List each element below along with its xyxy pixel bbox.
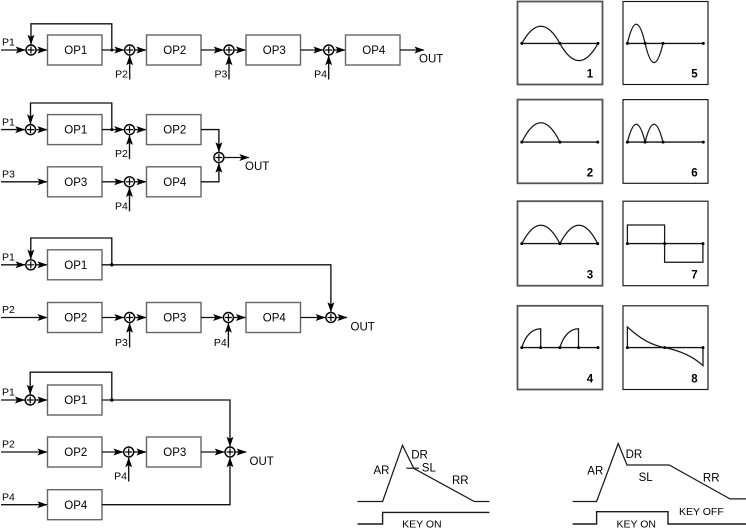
SL tick dash (left envelope) <box>406 467 419 469</box>
op block OP2 (alg2) <box>147 115 202 145</box>
waveform box 3 frame <box>518 201 603 286</box>
wire OP1 long output to final adder (alg3) <box>102 265 331 312</box>
wire OP3 output to adder A3 (alg2) <box>102 181 124 183</box>
op block OP4 (alg2) <box>147 167 202 197</box>
waveform box 5 frame <box>623 2 708 85</box>
svg-text:2: 2 <box>587 167 593 179</box>
svg-text:P2: P2 <box>115 69 128 81</box>
key gate line right <box>573 512 746 524</box>
wire P2 modulation input (alg1) <box>129 56 131 80</box>
wire OP3 output to final adder (alg4) <box>201 451 224 453</box>
op block OP1 (alg4) <box>48 385 103 415</box>
wire P3 input to OP3 (alg2) <box>1 181 47 183</box>
svg-text:KEY OFF: KEY OFF <box>679 506 724 518</box>
waveform 1 sine curve <box>522 26 598 60</box>
wire adder A2 to OP3 (alg4) <box>134 451 146 453</box>
svg-text:3: 3 <box>587 270 593 282</box>
waveform 8 axis dots <box>626 346 705 349</box>
svg-text:RR: RR <box>452 475 469 487</box>
adder A2 (alg3) <box>125 313 135 323</box>
op block OP2 (alg1) <box>147 35 202 65</box>
waveform 1 axis <box>522 42 598 44</box>
wire P2 input to OP2 (alg3) <box>1 317 47 319</box>
wire adder A2 to OP2 (alg1) <box>135 49 146 51</box>
op block OP4 (alg1) <box>346 35 401 65</box>
wire P2 modulation input (alg2) <box>129 135 131 159</box>
wire adder A3 to OP4 (alg3) <box>233 317 245 319</box>
op block OP4 (alg3) <box>246 303 301 333</box>
svg-text:OP3: OP3 <box>163 313 186 325</box>
svg-text:P1: P1 <box>2 116 15 128</box>
waveform 6 axis <box>627 141 703 143</box>
svg-text:RR: RR <box>703 473 720 485</box>
op block OP3 (alg1) <box>246 35 301 65</box>
wire OP2 output to adder A2 (alg4) <box>102 451 123 453</box>
op block OP3 (alg4) <box>147 437 202 467</box>
waveform 2 half-sine curve <box>522 123 560 142</box>
svg-text:P4: P4 <box>214 337 227 349</box>
waveform 2 axis <box>522 141 598 143</box>
svg-text:4: 4 <box>587 374 594 386</box>
svg-text:8: 8 <box>691 374 698 386</box>
svg-text:1: 1 <box>587 69 594 81</box>
svg-text:OP1: OP1 <box>64 260 87 272</box>
op block OP1 (alg1) <box>48 35 103 65</box>
svg-text:P1: P1 <box>2 387 15 399</box>
adder A2 (alg4) <box>124 447 134 457</box>
svg-text:OUT: OUT <box>250 456 274 468</box>
wire adder A2 to OP2 (alg2) <box>135 129 147 131</box>
svg-text:KEY ON: KEY ON <box>402 518 442 530</box>
svg-text:P4: P4 <box>314 69 327 81</box>
wire P2 input to OP2 (alg4) <box>1 451 47 453</box>
final sum adder (alg2) <box>214 153 224 163</box>
wire OP4 output to final adder (alg4) <box>102 458 230 505</box>
junction dot feedback tap (alg1) <box>110 49 113 52</box>
svg-text:6: 6 <box>691 167 697 179</box>
svg-text:DR: DR <box>411 449 428 461</box>
op block OP2 (alg3) <box>48 303 103 333</box>
svg-text:OUT: OUT <box>245 161 269 173</box>
waveform 3 axis dots <box>520 242 599 245</box>
wire adder A1 to OP1 (alg3) <box>36 264 47 266</box>
waveform 5 axis dots <box>626 42 705 45</box>
svg-text:7: 7 <box>691 270 697 282</box>
svg-text:P4: P4 <box>2 491 15 503</box>
wire adder A1 to OP1 (alg1) <box>36 49 47 51</box>
waveform 5 axis <box>627 42 703 44</box>
waveform 2 axis dots <box>520 141 599 144</box>
op block OP3 (alg2) <box>48 167 103 197</box>
waveform box 2 frame <box>518 100 603 184</box>
adder A1 (alg1) <box>26 45 36 55</box>
svg-text:AR: AR <box>587 466 603 478</box>
wire OUT (alg2) <box>224 157 249 159</box>
waveform 4 quarter-sine pulses <box>522 329 579 348</box>
wire P3 modulation input (alg3) <box>129 323 131 347</box>
feedback loop OP1 (alg3) <box>31 238 112 265</box>
waveform 4 axis dots <box>520 346 599 349</box>
svg-text:P1: P1 <box>2 37 15 49</box>
svg-text:SL: SL <box>639 472 654 484</box>
waveform box 1 frame <box>518 2 603 85</box>
envelope curve right (AR-DR-SL-RR) <box>573 444 746 502</box>
svg-text:KEY ON: KEY ON <box>617 518 657 530</box>
wire OP4 output (alg1) <box>400 49 424 51</box>
wire adder A3 to OP3 (alg1) <box>234 49 246 51</box>
wire OUT (alg3) <box>336 317 347 319</box>
svg-text:OP2: OP2 <box>163 45 186 57</box>
svg-text:P1: P1 <box>2 252 15 264</box>
svg-text:OP1: OP1 <box>64 395 87 407</box>
svg-text:5: 5 <box>691 69 698 81</box>
junction dot OP1 output (alg4) <box>110 398 113 401</box>
adder A1 (alg4) <box>25 395 35 405</box>
waveform 6 axis dots <box>626 141 705 144</box>
wire OP3 output to adder A4 (alg1) <box>301 49 323 51</box>
wire P4 input to OP4 (alg4) <box>1 504 47 506</box>
waveform box 6 frame <box>623 100 708 184</box>
svg-text:P4: P4 <box>115 200 128 212</box>
adder A3 (alg3) <box>223 313 233 323</box>
adder A2 (alg1) <box>125 45 135 55</box>
svg-text:P4: P4 <box>114 471 127 483</box>
svg-text:OP3: OP3 <box>64 177 87 189</box>
svg-text:OP3: OP3 <box>263 45 286 57</box>
feedback loop OP1 (alg1) <box>31 24 112 50</box>
wire OP1 output to adder A2 (alg1) <box>102 49 124 51</box>
wire P3 modulation input (alg1) <box>228 56 230 80</box>
svg-text:OP2: OP2 <box>64 447 87 459</box>
wire OP4 output to final adder (alg3) <box>301 317 326 319</box>
wire adder A3 to OP4 (alg2) <box>135 181 147 183</box>
svg-text:P2: P2 <box>2 304 15 316</box>
waveform 1 axis dots <box>520 42 599 45</box>
waveform 7 axis dots <box>626 242 705 245</box>
wire OP2 output to final adder (alg2) <box>201 130 219 152</box>
waveform 8 log-saw curve <box>627 327 703 366</box>
adder A2 (alg2) <box>125 125 135 135</box>
wire adder A1 to OP1 (alg2) <box>36 129 48 131</box>
envelope curve left (AR-DR-RR) <box>358 445 490 501</box>
waveform 8 axis <box>627 347 703 349</box>
svg-text:OP4: OP4 <box>263 313 287 325</box>
wire OP3 output to adder A3 (alg3) <box>201 317 223 319</box>
svg-text:DR: DR <box>626 449 643 461</box>
wire OP2 output to adder A2 (alg3) <box>102 317 124 319</box>
svg-text:P3: P3 <box>2 169 15 181</box>
waveform 3 axis <box>522 243 598 245</box>
waveform box 4 frame <box>518 306 603 390</box>
final sum adder (alg4) <box>225 447 235 457</box>
wire OUT (alg4) <box>235 451 246 453</box>
svg-text:OP4: OP4 <box>64 500 88 512</box>
junction dot feedback tap (alg2) <box>110 128 113 131</box>
waveform 6 double hump curve <box>627 124 663 142</box>
waveform box 8 frame <box>623 306 708 390</box>
adder A3 (alg2) <box>125 177 135 187</box>
op block OP2 (alg4) <box>48 437 103 467</box>
wire P4 modulation input (alg2) <box>129 188 131 212</box>
svg-text:OUT: OUT <box>351 322 375 334</box>
wire adder A2 to OP3 (alg3) <box>135 317 146 319</box>
wire OP2 output to adder A3 (alg1) <box>201 49 223 51</box>
op block OP1 (alg2) <box>48 115 103 145</box>
svg-text:AR: AR <box>374 465 390 477</box>
svg-text:SL: SL <box>422 462 437 474</box>
wire P1 input to adder (alg2) <box>1 129 25 131</box>
svg-text:P2: P2 <box>2 439 15 451</box>
wire adder A1 to OP1 (alg4) <box>35 399 47 401</box>
waveform box 7 frame <box>623 201 708 286</box>
svg-text:OUT: OUT <box>419 54 443 66</box>
wire adder A4 to OP4 (alg1) <box>334 49 345 51</box>
waveform 7 square wave <box>627 225 703 262</box>
wire P4 modulation input (alg1) <box>328 56 330 80</box>
wire OP1 long output to final adder (alg4) <box>102 400 230 446</box>
junction dot OP1 output (alg3) <box>110 263 113 266</box>
wire P4 modulation input (alg3) <box>227 323 229 347</box>
adder A3 (alg1) <box>224 45 234 55</box>
svg-text:OP2: OP2 <box>163 125 186 137</box>
final sum adder (alg3) <box>326 313 336 323</box>
svg-text:OP1: OP1 <box>64 45 87 57</box>
svg-text:P2: P2 <box>115 148 128 160</box>
wire OP1 output to adder A2 (alg2) <box>102 129 124 131</box>
wire P1 input to adder (alg4) <box>1 399 24 401</box>
feedback loop OP1 (alg4) <box>30 372 112 400</box>
waveform 3 abs-sine curve <box>522 225 598 243</box>
wire OP4 output to final adder (alg2) <box>201 163 219 182</box>
svg-text:OP4: OP4 <box>362 45 386 57</box>
svg-text:OP4: OP4 <box>163 177 187 189</box>
feedback loop OP1 (alg2) <box>31 103 112 130</box>
adder A1 (alg2) <box>26 125 36 135</box>
svg-text:P3: P3 <box>115 337 128 349</box>
adder A1 (alg3) <box>26 260 36 270</box>
waveform 7 axis <box>627 243 703 245</box>
svg-text:OP2: OP2 <box>64 313 87 325</box>
adder A4 (alg1) <box>324 45 334 55</box>
waveform 4 axis <box>522 347 598 349</box>
svg-text:OP1: OP1 <box>64 125 87 137</box>
wire P1 input to adder (alg1) <box>1 49 25 51</box>
wire P4 modulation input mid (alg4) <box>128 458 130 482</box>
op block OP4 (alg4) <box>48 490 103 520</box>
svg-text:P3: P3 <box>214 69 227 81</box>
op block OP1 (alg3) <box>48 250 103 280</box>
wire P1 input to adder (alg3) <box>1 264 25 266</box>
op block OP3 (alg3) <box>147 303 202 333</box>
waveform 5 sine curve <box>627 24 663 62</box>
svg-text:OP3: OP3 <box>163 447 186 459</box>
key gate line left <box>358 512 490 524</box>
